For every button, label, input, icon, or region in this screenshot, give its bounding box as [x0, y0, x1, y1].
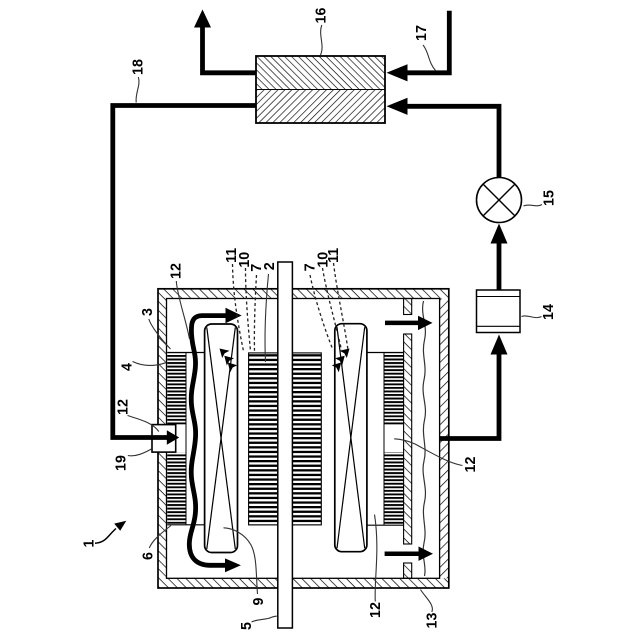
- svg-text:11: 11: [326, 248, 342, 263]
- roller right (crossed): [335, 324, 367, 552]
- box 14: [477, 290, 521, 333]
- svg-text:6: 6: [141, 552, 157, 560]
- tank inner border: [167, 299, 440, 579]
- pipe HX lower-right from pump: [407, 106, 499, 177]
- svg-text:13: 13: [425, 613, 441, 629]
- svg-text:12: 12: [116, 399, 132, 415]
- stack 2 (left cell stack): [249, 353, 278, 525]
- leader label 2 (solid): [265, 274, 269, 362]
- arrow through partition upper: [385, 321, 420, 326]
- pipe 17 inlet top-right: [407, 11, 449, 73]
- svg-text:2: 2: [262, 262, 278, 270]
- tank outer border: [158, 289, 449, 588]
- svg-text:14: 14: [541, 304, 557, 320]
- pipe tank to box 14 with arrow: [440, 354, 499, 439]
- svg-text:15: 15: [542, 190, 558, 206]
- partition wall segment top: [404, 299, 412, 579]
- svg-text:19: 19: [114, 455, 130, 471]
- tank wall frame (hatched): [158, 289, 449, 588]
- roller 9 (left, crossed): [205, 324, 238, 553]
- stack 3 (right cell stack): [292, 353, 321, 525]
- right fin stripes: [384, 353, 404, 425]
- svg-text:4: 4: [120, 363, 136, 371]
- pipe outlet up-left with arrow: [203, 27, 257, 73]
- steam dashed curves left (11,10,7): [233, 264, 257, 351]
- svg-text:18: 18: [131, 59, 147, 75]
- svg-text:5: 5: [239, 622, 255, 630]
- steam dashed curves right (7,10,11): [310, 263, 348, 350]
- lightning bolts right roller: [332, 349, 350, 373]
- heat exchanger 16: [256, 56, 385, 123]
- arrow from box 14 up to pump: [497, 241, 502, 290]
- svg-text:12: 12: [169, 263, 185, 279]
- port 19: [152, 425, 176, 453]
- arrow through partition lower: [385, 551, 421, 556]
- svg-text:16: 16: [314, 8, 330, 24]
- right wall re-hatch (/ direction): [440, 299, 449, 579]
- pump 15: [477, 178, 522, 223]
- svg-text:3: 3: [140, 308, 156, 316]
- svg-text:9: 9: [251, 597, 267, 605]
- flow line top arrowhead: [226, 308, 242, 323]
- port inlet arrowhead: [167, 430, 179, 444]
- flow line bottom arrowhead: [225, 558, 241, 572]
- left fin stripes: [167, 353, 186, 424]
- svg-text:17: 17: [414, 25, 430, 41]
- svg-text:12: 12: [463, 457, 479, 473]
- lightning bolts left roller: [220, 349, 238, 373]
- right fin stack: outline: [367, 353, 404, 526]
- svg-text:12: 12: [368, 602, 384, 618]
- shaft 5: [278, 262, 293, 628]
- left fin stack 4: outline: [167, 353, 204, 525]
- flow line (thick wavy, element 12): [189, 316, 227, 566]
- right channel wavy line: [423, 301, 426, 576]
- pipe 18: HX lower-left, down left side, into tank port: [113, 106, 256, 438]
